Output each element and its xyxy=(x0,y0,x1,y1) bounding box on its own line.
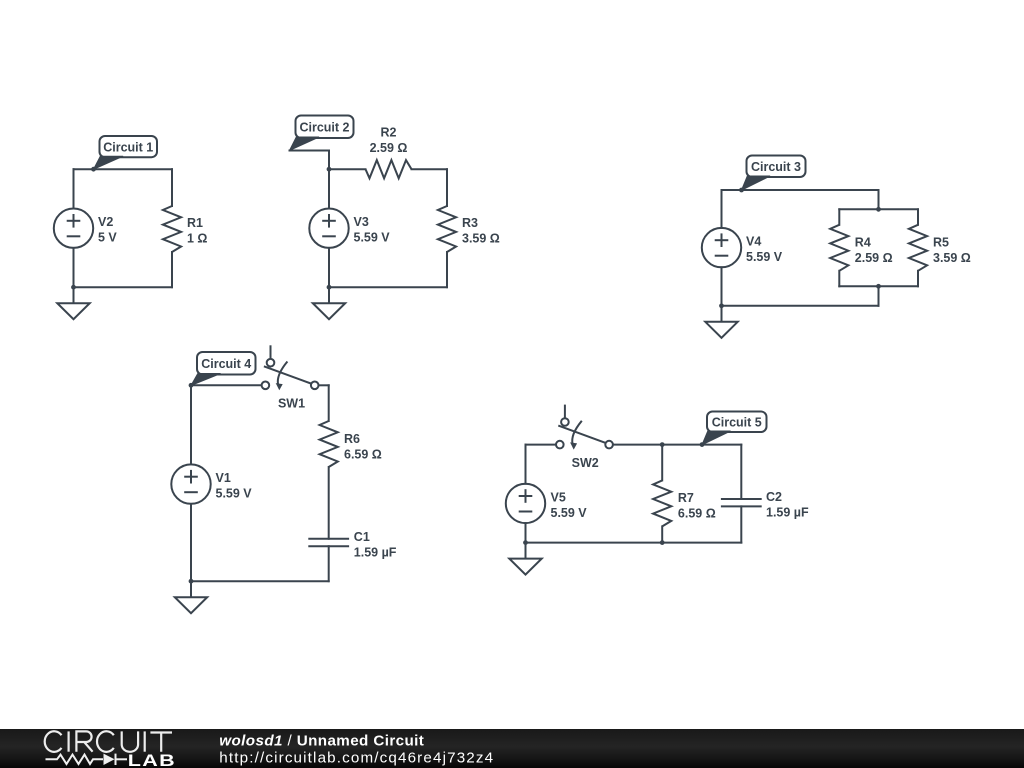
svg-text:2.59 Ω: 2.59 Ω xyxy=(855,251,893,265)
svg-text:Circuit 1: Circuit 1 xyxy=(103,140,153,154)
wire left upper (Circuit 2) xyxy=(328,169,330,208)
svg-text:3.59 Ω: 3.59 Ω xyxy=(462,232,500,246)
wire right upper (Circuit 1) xyxy=(171,169,173,206)
wire R7 top lead (Circuit 5) xyxy=(661,445,663,481)
svg-text:C1: C1 xyxy=(354,530,370,544)
wire switch to R7 node (Circuit 5) xyxy=(614,444,663,446)
svg-text:6.59 Ω: 6.59 Ω xyxy=(344,448,382,462)
svg-text:5 V: 5 V xyxy=(98,231,117,245)
wire stub horizontal (Circuit 2 flag) xyxy=(290,150,330,152)
flag callout Circuit 4 xyxy=(191,352,256,386)
wire parallel bottom rail (Circuit 3) xyxy=(839,285,918,287)
wire left upper (Circuit 3) xyxy=(721,190,723,228)
svg-text:C2: C2 xyxy=(766,490,782,504)
wire left lower (Circuit 2) xyxy=(328,248,330,287)
svg-text:5.59 V: 5.59 V xyxy=(551,506,588,520)
wire left lower (Circuit 4) xyxy=(190,504,192,581)
wire C1 down (Circuit 4) xyxy=(328,546,330,581)
svg-text:5.59 V: 5.59 V xyxy=(354,231,391,245)
svg-text:V2: V2 xyxy=(98,215,113,229)
wire R4 bottom lead xyxy=(838,271,840,287)
svg-text:3.59 Ω: 3.59 Ω xyxy=(933,251,971,265)
capacitor C2 xyxy=(721,499,762,506)
wire parallel top rail (Circuit 3) xyxy=(839,208,918,210)
wire left lower (Circuit 5) xyxy=(525,523,527,543)
wire top-right (Circuit 2) xyxy=(412,168,448,170)
wire R5 top lead xyxy=(917,209,919,225)
wire top (Circuit 3) xyxy=(722,189,879,191)
flag callout Circuit 5 xyxy=(702,412,767,445)
wire R7 node to flag node (Circuit 5) xyxy=(662,444,702,446)
wire top (Circuit 1) xyxy=(74,168,173,170)
node A (R7 top junction) xyxy=(660,442,665,447)
CircuitLab logo resistor-diode glyph xyxy=(46,754,128,765)
svg-text:5.59 V: 5.59 V xyxy=(216,487,253,501)
wire left upper (Circuit 5) xyxy=(525,445,527,484)
wire right upper (Circuit 4) xyxy=(328,385,330,421)
voltage source V2 xyxy=(54,209,93,248)
wire drop from parallel pair (Circuit 3) xyxy=(878,286,880,306)
wire top-right (Circuit 5) xyxy=(702,444,741,446)
wire switch to corner (Circuit 4) xyxy=(319,384,329,386)
svg-text:1.59 µF: 1.59 µF xyxy=(354,545,397,559)
svg-text:R3: R3 xyxy=(462,216,478,230)
voltage source V4 xyxy=(702,228,741,267)
node C (parallel bottom junction) xyxy=(876,284,881,289)
ground (Circuit 5) xyxy=(509,543,541,575)
svg-text:SW1: SW1 xyxy=(278,397,305,411)
svg-text:V5: V5 xyxy=(551,490,566,504)
wire bottom (Circuit 1) xyxy=(74,286,173,288)
resistor R7 xyxy=(653,480,671,526)
node D (Circuit 3 ground junction) xyxy=(719,303,724,308)
wire left lower (Circuit 1) xyxy=(73,248,75,287)
svg-text:5.59 V: 5.59 V xyxy=(746,250,783,264)
ground (Circuit 2) xyxy=(313,287,345,319)
resistor R1 xyxy=(163,206,181,252)
svg-text:1 Ω: 1 Ω xyxy=(187,232,207,246)
wire R6 to C1 (Circuit 4) xyxy=(328,467,330,539)
svg-text:http://circuitlab.com/cq46re4j: http://circuitlab.com/cq46re4j732z4 xyxy=(219,750,494,767)
flag callout Circuit 1 xyxy=(94,136,158,169)
wire right upper (Circuit 2) xyxy=(446,169,448,206)
wire left upper (Circuit 1) xyxy=(73,169,75,208)
wire right lower (Circuit 1) xyxy=(171,252,173,287)
svg-text:V1: V1 xyxy=(216,471,231,485)
node A (Circuit 2 top-left junction) xyxy=(327,167,332,172)
wire bottom (Circuit 3) xyxy=(722,305,879,307)
svg-text:wolosd1 / Unnamed Circuit: wolosd1 / Unnamed Circuit xyxy=(219,732,424,749)
svg-text:V3: V3 xyxy=(354,215,369,229)
flag callout Circuit 3 xyxy=(742,156,806,191)
CircuitLab logo text LAB xyxy=(128,752,176,768)
switch SW2 xyxy=(556,405,613,450)
ground (Circuit 1) xyxy=(57,287,89,319)
svg-text:LAB: LAB xyxy=(128,752,176,768)
wire R4 top lead xyxy=(838,209,840,225)
node A (Circuit 4 flag attach) xyxy=(189,383,194,388)
wire stub vertical (Circuit 2 flag) xyxy=(328,151,330,170)
footer bar xyxy=(0,729,1024,768)
ground (Circuit 4) xyxy=(175,581,207,613)
svg-text:2.59 Ω: 2.59 Ω xyxy=(370,141,408,155)
voltage source V5 xyxy=(506,484,545,523)
capacitor C1 xyxy=(308,539,349,546)
wire right upper (Circuit 5) xyxy=(740,445,742,499)
voltage source V1 xyxy=(171,464,210,503)
node A (Circuit 1 flag attach) xyxy=(91,167,96,172)
node B (Circuit 5 flag attach) xyxy=(700,442,705,447)
svg-text:6.59 Ω: 6.59 Ω xyxy=(678,507,716,521)
wire bottom (Circuit 2) xyxy=(329,286,447,288)
wire R7 bottom lead (Circuit 5) xyxy=(661,526,663,542)
voltage source V3 xyxy=(309,209,348,248)
node B (Circuit 2 ground junction) xyxy=(327,285,332,290)
wire right lower (Circuit 5) xyxy=(740,506,742,542)
svg-text:R1: R1 xyxy=(187,216,203,230)
node B (parallel top junction) xyxy=(876,207,881,212)
wire right lower (Circuit 2) xyxy=(446,252,448,287)
resistor R5 xyxy=(909,225,927,271)
wire top-left (Circuit 2) xyxy=(329,168,366,170)
node D (Circuit 5 ground junction) xyxy=(523,540,528,545)
CircuitLab logo text CIRCUIT xyxy=(45,731,172,752)
svg-text:R4: R4 xyxy=(855,236,871,250)
svg-text:Circuit 3: Circuit 3 xyxy=(751,160,801,174)
node A (Circuit 3 flag attach) xyxy=(739,188,744,193)
svg-text:R5: R5 xyxy=(933,236,949,250)
resistor R6 xyxy=(320,421,338,467)
node B (Circuit 4 ground junction) xyxy=(189,579,194,584)
wire top to switch (Circuit 4) xyxy=(191,384,261,386)
wire left upper (Circuit 4) xyxy=(190,385,192,464)
resistor R4 xyxy=(830,225,848,271)
switch SW1 xyxy=(262,345,319,390)
svg-text:Circuit 5: Circuit 5 xyxy=(712,416,762,430)
svg-text:SW2: SW2 xyxy=(572,456,599,470)
svg-text:R2: R2 xyxy=(381,126,397,140)
node C (R7 bottom junction) xyxy=(660,540,665,545)
node B (Circuit 1 ground junction) xyxy=(71,285,76,290)
wire drop to parallel pair (Circuit 3) xyxy=(878,190,880,209)
svg-text:R6: R6 xyxy=(344,432,360,446)
wire R5 bottom lead xyxy=(917,271,919,287)
flag callout Circuit 2 xyxy=(290,116,354,151)
svg-text:Circuit 4: Circuit 4 xyxy=(201,357,251,371)
svg-text:1.59 µF: 1.59 µF xyxy=(766,506,809,520)
wire top-left to switch (Circuit 5) xyxy=(526,444,556,446)
ground (Circuit 3) xyxy=(705,306,737,338)
resistor R3 xyxy=(438,206,456,252)
resistor R2 xyxy=(366,160,412,178)
svg-text:V4: V4 xyxy=(746,235,761,249)
svg-text:Circuit 2: Circuit 2 xyxy=(299,121,349,135)
wire left lower (Circuit 3) xyxy=(721,267,723,306)
wire bottom (Circuit 5) xyxy=(526,542,742,544)
svg-text:R7: R7 xyxy=(678,491,694,505)
wire bottom (Circuit 4) xyxy=(191,580,329,582)
